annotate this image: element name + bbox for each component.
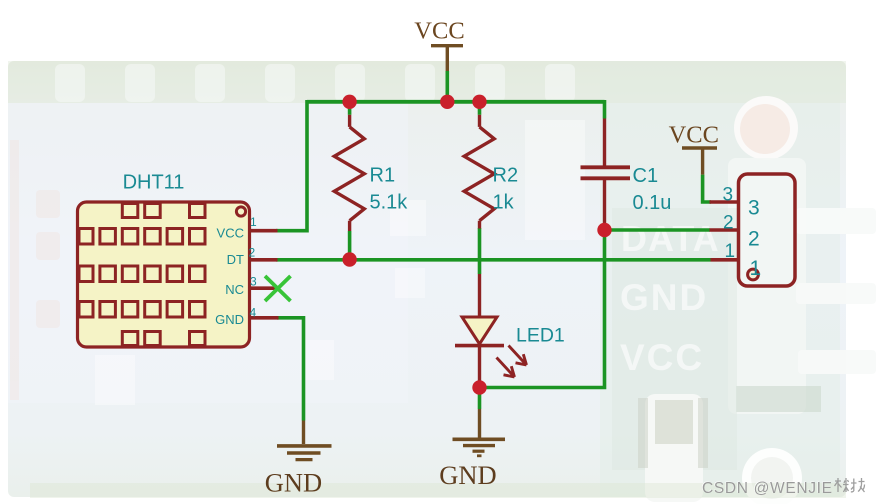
DHT11 pin numbers bbox=[249, 215, 258, 320]
svg-text:5.1k: 5.1k bbox=[370, 192, 409, 214]
svg-text:2: 2 bbox=[748, 228, 760, 251]
pin stub connector pin2 bbox=[710, 228, 740, 232]
svg-text:2: 2 bbox=[249, 246, 256, 260]
svg-text:3: 3 bbox=[250, 275, 257, 289]
wire top VCC bus bbox=[307, 100, 605, 104]
bottom-right components bbox=[645, 394, 703, 502]
LED LED1 bbox=[455, 274, 527, 388]
svg-text:VCC: VCC bbox=[620, 337, 704, 378]
wire R1 bottom bbox=[348, 231, 352, 260]
pin stub DHT11 pin1 bbox=[250, 229, 278, 233]
wire R2 bottom to LED bbox=[478, 228, 482, 274]
junction dot LED-gnd bbox=[472, 380, 486, 394]
svg-text:DATA: DATA bbox=[621, 218, 720, 259]
pin stub DHT11 pin4 bbox=[250, 316, 279, 320]
resistor R2 bbox=[464, 115, 494, 229]
wire left rail to DHT11 pin1 bbox=[276, 100, 307, 231]
svg-text:C1: C1 bbox=[633, 165, 659, 187]
DHT11 body bbox=[78, 202, 250, 347]
svg-text:4: 4 bbox=[250, 306, 257, 320]
junction dot bus-R2 bbox=[472, 95, 486, 109]
svg-text:3: 3 bbox=[748, 197, 760, 220]
wire VCC stem bbox=[445, 71, 449, 102]
bottom castellated strip bbox=[30, 483, 846, 498]
junction dot bus-VCC bbox=[440, 95, 454, 109]
svg-text:CSDN @WENJIE: CSDN @WENJIE bbox=[702, 480, 832, 497]
silk texts on pcb bbox=[620, 218, 720, 378]
svg-text:VCC: VCC bbox=[217, 226, 244, 241]
junction dot bus-R1 bbox=[342, 95, 356, 109]
svg-text:R1: R1 bbox=[370, 165, 396, 187]
label R2 1k bbox=[493, 165, 519, 214]
power symbol VCC (right) bbox=[669, 122, 719, 175]
junction dot C1-pin2 bbox=[597, 223, 611, 237]
header housing strip bbox=[728, 158, 806, 414]
svg-text:R2: R2 bbox=[493, 165, 519, 187]
connector pin numbers bbox=[723, 185, 736, 263]
svg-text:1: 1 bbox=[750, 257, 762, 280]
pcb LED blob bbox=[734, 96, 798, 160]
svg-text:DT: DT bbox=[227, 252, 244, 267]
wire LED cathode to ground bbox=[478, 388, 482, 410]
svg-text:2: 2 bbox=[723, 213, 734, 234]
svg-text:GND: GND bbox=[215, 312, 244, 327]
wire C1 bottom to connector pin2 bbox=[605, 228, 711, 232]
wire C1 top stub bbox=[603, 100, 607, 119]
svg-text:GND: GND bbox=[620, 277, 708, 318]
svg-text:LED1: LED1 bbox=[516, 325, 565, 347]
label C1 0.1u bbox=[633, 165, 672, 214]
ground symbol (right, below LED) bbox=[453, 409, 506, 456]
connector J1 bbox=[739, 174, 796, 286]
watermark (decorative) bbox=[701, 478, 864, 497]
svg-text:DHT11: DHT11 bbox=[123, 172, 185, 194]
wire node to LED cathode bbox=[485, 230, 605, 388]
pin stub DHT11 pin3 bbox=[250, 286, 278, 290]
svg-text:3: 3 bbox=[723, 185, 734, 206]
wire DHT11 GND pin to ground bbox=[277, 318, 304, 421]
svg-text:NC: NC bbox=[225, 282, 244, 297]
wire VCC to connector pin3 bbox=[703, 175, 711, 202]
ground symbol (left) bbox=[277, 421, 332, 460]
junction dot R1-DT bbox=[342, 252, 356, 266]
no-connect X on pin 3 bbox=[265, 276, 291, 301]
svg-text:1: 1 bbox=[250, 215, 257, 229]
svg-text:0.1u: 0.1u bbox=[633, 192, 672, 214]
svg-text:VCC: VCC bbox=[414, 18, 464, 45]
wire R2 top stub bbox=[478, 102, 482, 115]
svg-text:1: 1 bbox=[725, 241, 736, 262]
DHT11 pin names bbox=[215, 226, 244, 328]
svg-text:VCC: VCC bbox=[669, 122, 719, 149]
resistor R1 bbox=[334, 115, 364, 231]
svg-text:GND: GND bbox=[439, 460, 496, 490]
pin stub DHT11 pin2 bbox=[250, 258, 278, 262]
connector pad names bbox=[748, 197, 761, 281]
capacitor C1 bbox=[581, 119, 631, 231]
svg-text:GND: GND bbox=[265, 468, 322, 498]
wire DT net bbox=[276, 258, 711, 262]
svg-text:1k: 1k bbox=[493, 192, 515, 214]
header pins bbox=[796, 208, 876, 374]
wire R1 top stub bbox=[348, 102, 352, 115]
pin stub connector pin3 bbox=[710, 200, 740, 204]
label R1 5.1k bbox=[370, 165, 409, 214]
power symbol VCC (top) bbox=[414, 18, 464, 72]
pin stub connector pin1 bbox=[711, 258, 740, 262]
